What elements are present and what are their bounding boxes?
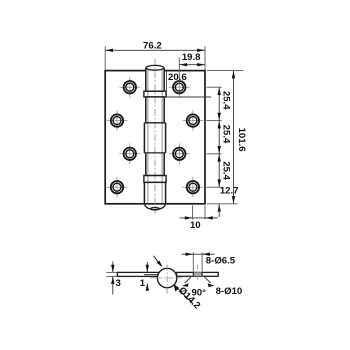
knuckle inner seam lines	[148, 70, 162, 203]
barrel center line	[154, 59, 156, 214]
dim 14.2 leader	[174, 285, 193, 305]
hole R2 crosshair	[183, 110, 204, 131]
hole L1 crosshair	[119, 77, 140, 98]
dim 19.8 line	[179, 64, 205, 66]
svg-text:3: 3	[116, 278, 121, 289]
dim 76.2 arrows	[106, 49, 114, 52]
hole L1	[124, 81, 136, 93]
svg-text:25.4: 25.4	[220, 91, 231, 110]
svg-text:12.7: 12.7	[220, 186, 239, 197]
hole L2	[111, 114, 123, 126]
svg-text:8-Ø6.5: 8-Ø6.5	[206, 255, 236, 266]
dim 8-6.5 line	[182, 253, 215, 255]
dim 76.2 extension lines	[105, 46, 205, 69]
dim 19.8 extension line	[178, 58, 180, 84]
overlap seam line	[144, 274, 159, 276]
chain arrows	[218, 88, 221, 187]
dim 20.6 bracket	[166, 71, 211, 97]
countersunk hole section	[191, 272, 204, 276]
dim 10 line	[180, 217, 219, 219]
hinge plate outline	[105, 71, 205, 204]
dim 10 extension lines	[193, 206, 205, 220]
dim 1 arrows	[146, 262, 148, 272]
svg-text:25.4: 25.4	[220, 161, 231, 180]
left leaf bar	[117, 272, 159, 276]
svg-text:1: 1	[140, 278, 146, 289]
hole L4	[111, 181, 123, 193]
svg-text:10: 10	[190, 220, 201, 231]
knuckle circle horizontal center line	[156, 277, 178, 279]
svg-text:8-Ø10: 8-Ø10	[216, 286, 243, 297]
hole L3 crosshair	[119, 143, 140, 164]
dim 101.6 line	[233, 71, 235, 204]
bearing ring 1	[144, 91, 166, 97]
barrel bottom cap	[145, 204, 166, 209]
right leaf bar	[177, 272, 219, 276]
hole L3	[124, 148, 136, 160]
dim 14.2 upper leader	[153, 256, 161, 266]
90 degree angle lines	[185, 276, 211, 283]
knuckle barrel body	[144, 68, 165, 205]
hole R1 crosshair	[169, 77, 190, 98]
svg-text:19.8: 19.8	[182, 52, 201, 63]
dim 101.6 arrows	[232, 71, 235, 79]
hole R1	[173, 81, 185, 93]
chain dim line	[218, 87, 220, 187]
screw holes	[107, 77, 204, 198]
side view horizontal center line	[150, 277, 184, 279]
hole R3 crosshair	[169, 143, 190, 164]
hole center line	[197, 265, 199, 282]
svg-text:76.2: 76.2	[143, 40, 162, 51]
svg-text:101.6: 101.6	[236, 128, 247, 152]
hole R4	[187, 181, 199, 193]
dim 3 arrows	[112, 262, 114, 273]
bearing ring 2	[144, 176, 166, 183]
knuckle circle vertical center line	[166, 265, 168, 296]
90 degree arrows	[182, 283, 189, 287]
hole L2 crosshair	[107, 110, 128, 131]
dim 8-6.5 extension lines	[193, 252, 202, 271]
dim 19.8 arrows	[180, 63, 188, 66]
svg-text:20.6: 20.6	[168, 72, 187, 83]
barrel white mask	[145, 65, 165, 203]
barrel top cap	[146, 65, 164, 70]
knuckle joint lines	[144, 91, 165, 182]
dim 8-6.5 arrows	[186, 253, 194, 256]
svg-text:25.4: 25.4	[220, 125, 231, 144]
hole R3	[173, 148, 185, 160]
dim 3 extension stubs	[106, 272, 117, 276]
dim 76.2 line	[105, 49, 205, 51]
chain extension stubs	[207, 87, 222, 187]
hole L4 crosshair	[107, 177, 128, 198]
dim 12.7 lower arrow	[218, 204, 221, 212]
hole R4 crosshair	[183, 177, 204, 198]
dim 101.6 extension lines	[207, 71, 243, 204]
hole R2	[187, 114, 199, 126]
dim 10 arrows	[185, 216, 193, 219]
knuckle circle	[157, 268, 176, 287]
